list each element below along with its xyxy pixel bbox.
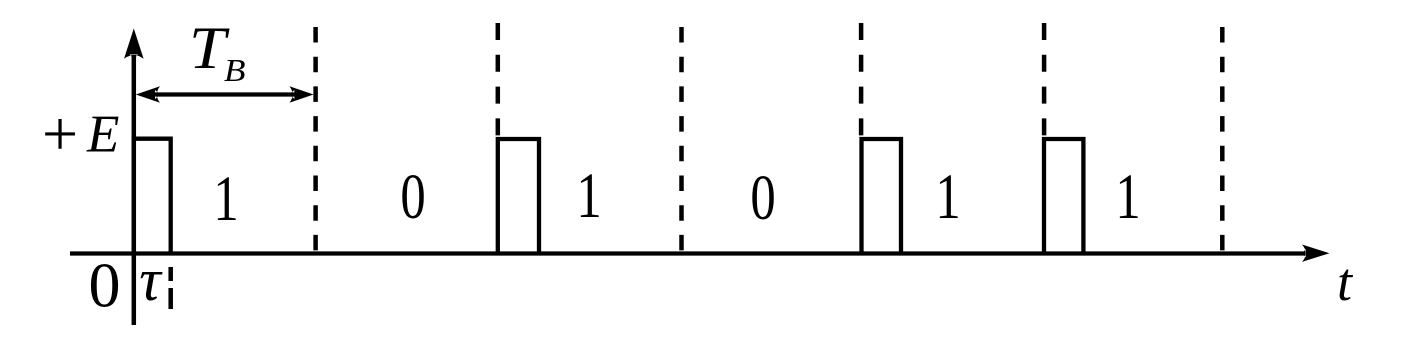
svg-text:1: 1 [576,159,601,231]
E axis (vertical) [132,55,137,325]
svg-text:0: 0 [400,160,425,232]
bit boundary dashed line 4 [859,23,864,136]
svg-text:1: 1 [213,162,238,234]
svg-text:E: E [86,106,119,164]
t axis (horizontal) [70,251,1305,255]
svg-text:B: B [224,53,246,88]
svg-text:+: + [42,98,78,169]
svg-text:τ: τ [139,247,163,313]
svg-text:0: 0 [89,250,121,321]
bit boundary dashed line 1 [313,27,318,251]
pulse 2 (bit 1) [498,139,539,254]
svg-text:t: t [1337,252,1354,312]
T_B interval double arrow line [152,92,297,96]
T_B arrowhead right [289,86,313,103]
bit boundary dashed line 6 [1220,27,1225,251]
pulse 3 (bit 1) [862,139,902,254]
bit boundary dashed line 2 [496,23,501,136]
svg-text:1: 1 [935,160,960,232]
T_B arrowhead left [136,86,160,103]
svg-text:0: 0 [750,161,775,233]
t axis arrowhead [1302,245,1330,262]
E axis arrowhead [124,29,144,59]
svg-text:1: 1 [1115,160,1140,232]
tau end dashed marker below axis [168,267,173,309]
pulse 4 (bit 1) [1044,139,1083,254]
bit boundary dashed line 3 [679,27,684,251]
pulse 1 (bit 1, at origin) [134,139,171,254]
bit boundary dashed line 5 [1042,23,1047,136]
